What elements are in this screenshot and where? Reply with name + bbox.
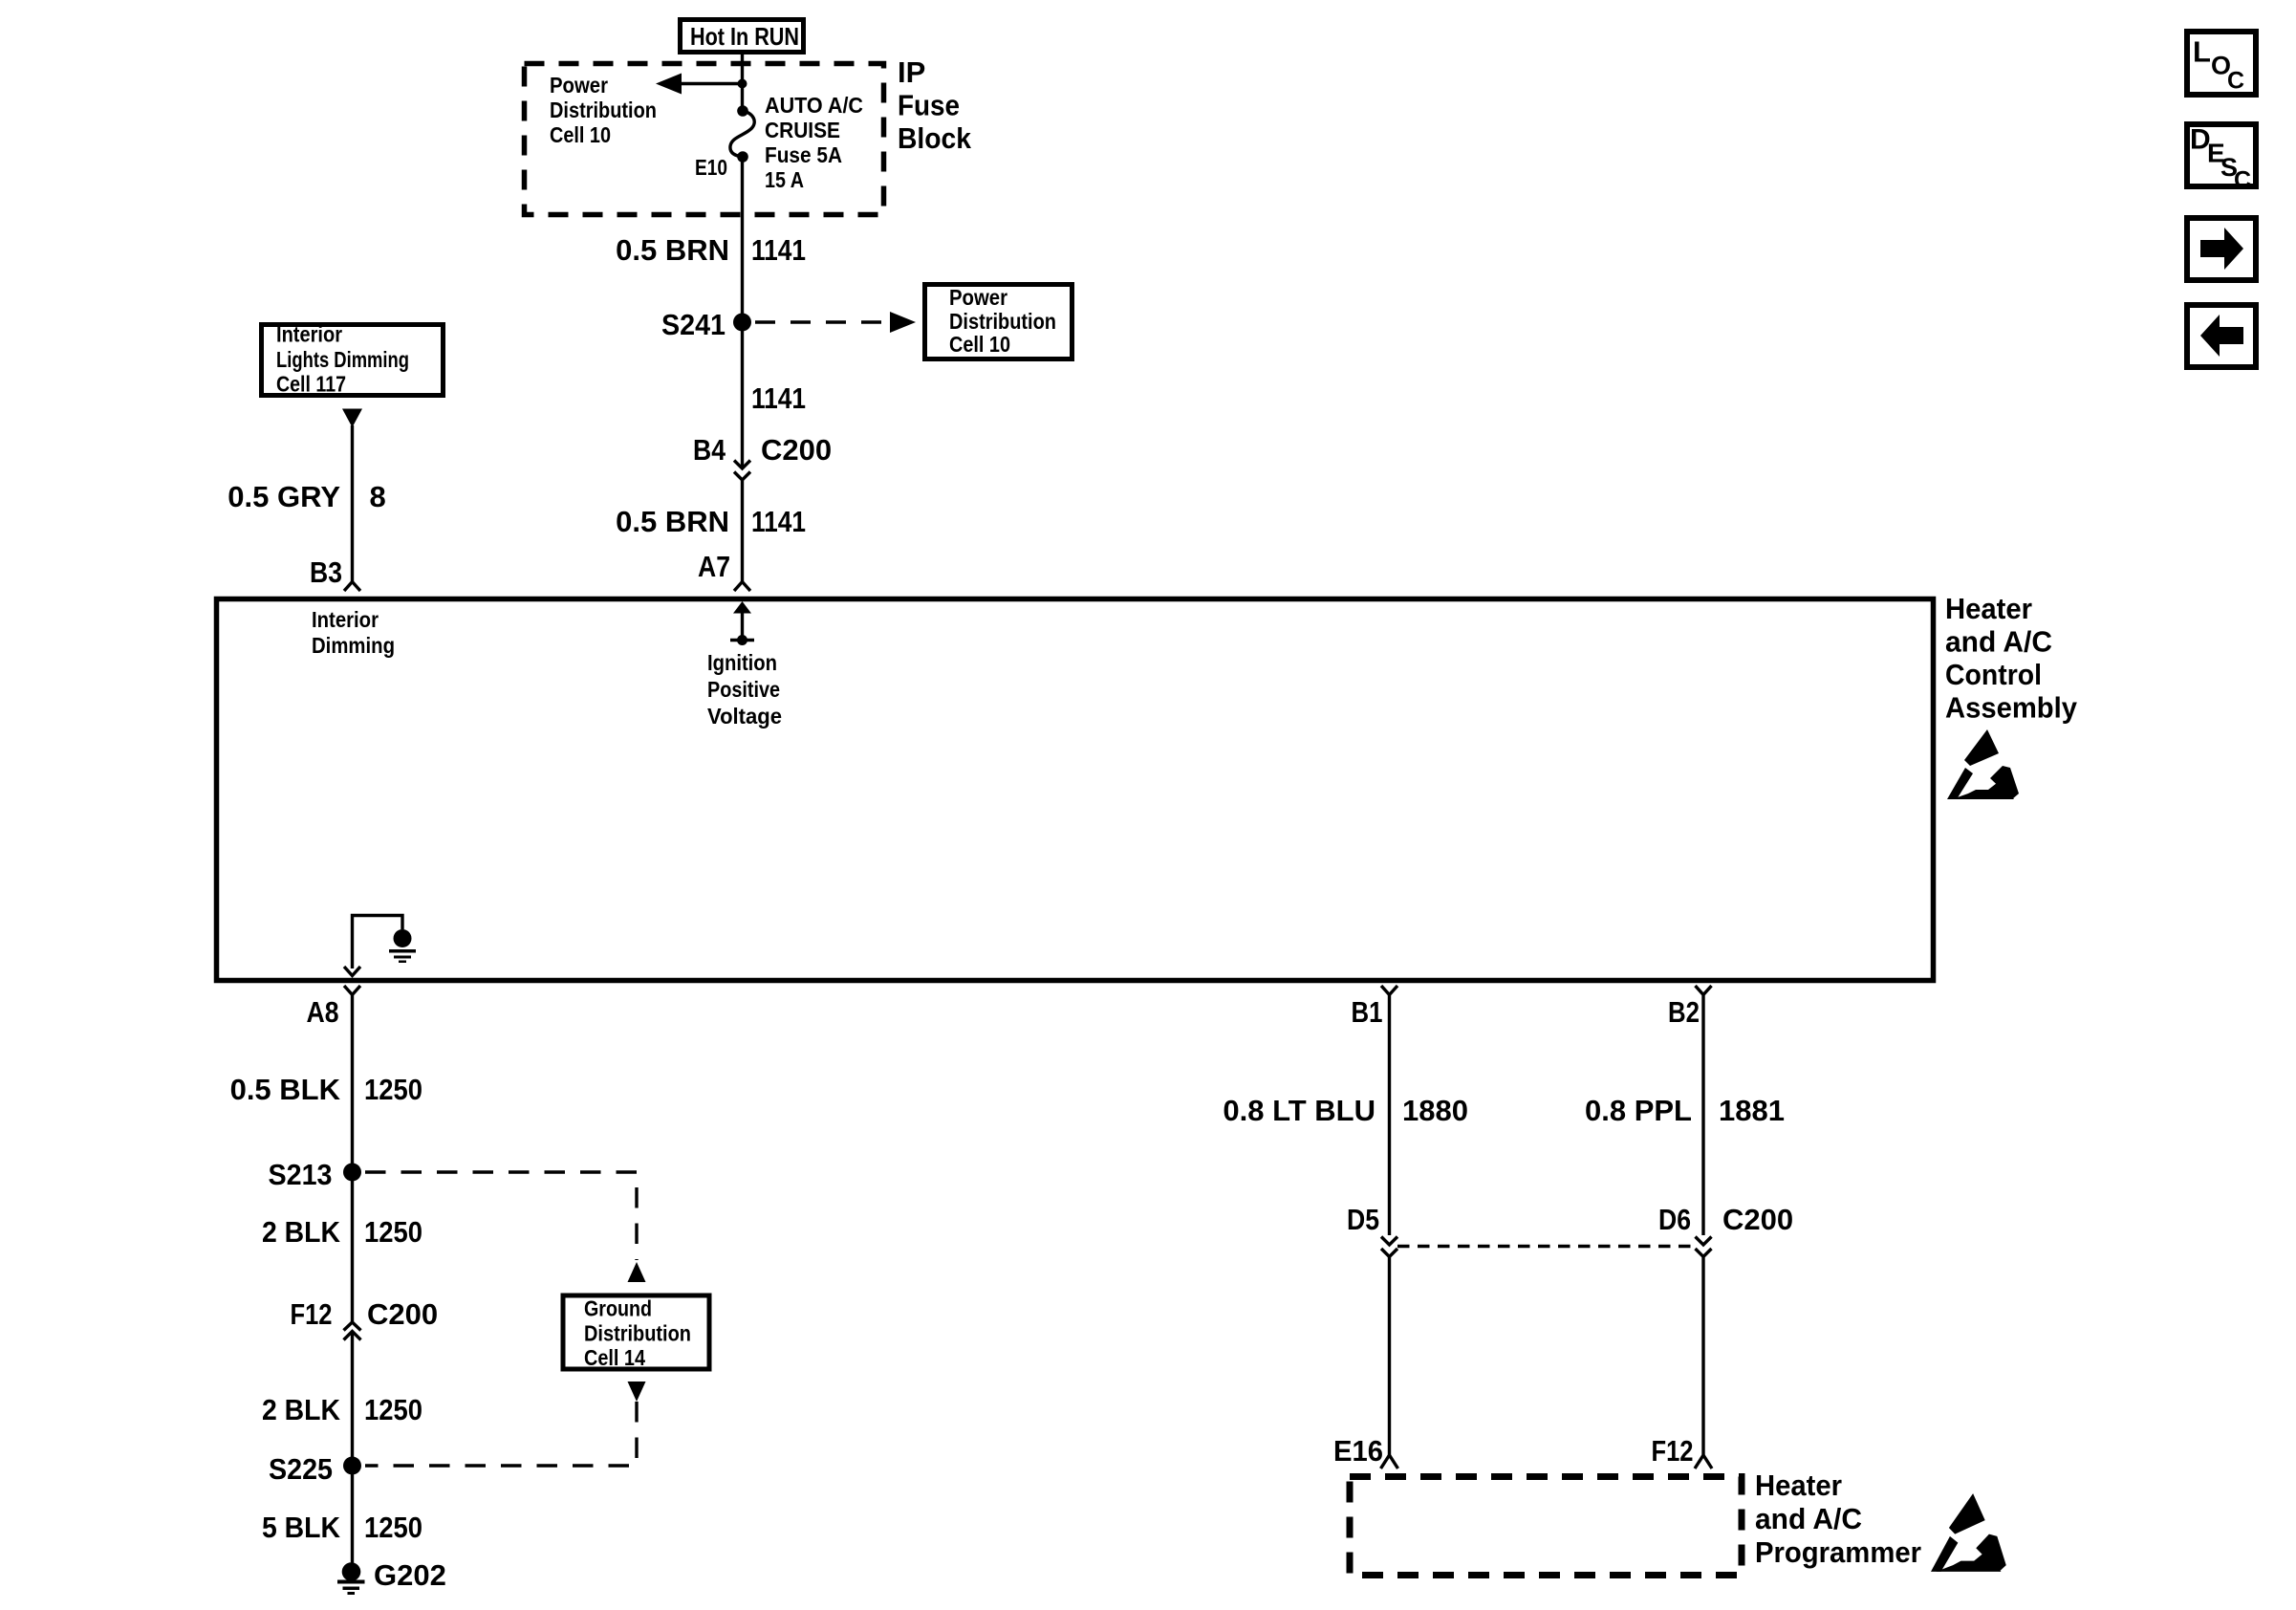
fuse E10 upper terminal dot	[737, 105, 748, 117]
svg-text:C200: C200	[367, 1297, 438, 1331]
svg-text:Hot In RUN: Hot In RUN	[690, 22, 799, 51]
svg-text:0.8 PPL: 0.8 PPL	[1585, 1094, 1692, 1127]
ignition positive voltage symbol stem	[741, 612, 744, 644]
ground G202 dot	[342, 1562, 361, 1581]
svg-text:CRUISE: CRUISE	[765, 118, 840, 142]
connector C200 pin B4 arrowhead	[734, 461, 750, 469]
svg-text:15 A: 15 A	[765, 167, 804, 192]
ESD symbol (programmer)	[1931, 1493, 2006, 1572]
svg-text:A7: A7	[698, 550, 730, 583]
dashed reference wire Ground Distribution to S225	[365, 1402, 637, 1466]
pin B1 chevron and wire 0.8 LT BLU 1880	[1381, 986, 1397, 1235]
pin E16 chevron	[1381, 1455, 1398, 1469]
svg-text:AUTO A/C: AUTO A/C	[765, 93, 863, 118]
svg-text:G202: G202	[374, 1558, 446, 1592]
svg-text:Fuse: Fuse	[898, 89, 960, 122]
svg-text:and A/C: and A/C	[1755, 1502, 1862, 1535]
svg-text:B4: B4	[693, 433, 726, 467]
svg-text:1250: 1250	[364, 1393, 422, 1426]
ground G202 hatch lines	[337, 1580, 365, 1584]
svg-text:L: L	[2193, 35, 2211, 69]
svg-text:1881: 1881	[1719, 1094, 1785, 1127]
svg-text:0.5 BLK: 0.5 BLK	[230, 1073, 341, 1106]
svg-text:B1: B1	[1352, 995, 1383, 1029]
svg-text:B2: B2	[1668, 995, 1700, 1029]
ESD sensitive symbol (control assembly)	[1947, 729, 2019, 799]
svg-text:Distribution: Distribution	[949, 309, 1056, 334]
svg-text:Interior: Interior	[276, 322, 342, 347]
arrow to pin A8 inside box	[344, 967, 360, 976]
pin A8 chevron	[344, 986, 360, 1172]
svg-text:D5: D5	[1347, 1203, 1379, 1236]
connector C200 pin D5 arrowhead	[1381, 1237, 1397, 1246]
svg-text:F12: F12	[1652, 1434, 1694, 1468]
fuse E10 element (AUTO A/C CRUISE Fuse 15 A)	[730, 111, 754, 157]
svg-text:0.5 GRY: 0.5 GRY	[227, 480, 340, 513]
svg-text:1141: 1141	[751, 233, 806, 267]
svg-text:E16: E16	[1333, 1434, 1383, 1468]
connector C200 pin D6 arrowhead	[1696, 1237, 1712, 1246]
svg-text:Assembly: Assembly	[1945, 691, 2078, 725]
svg-text:1250: 1250	[364, 1511, 422, 1544]
svg-text:Distribution: Distribution	[550, 98, 657, 122]
svg-text:Distribution: Distribution	[584, 1321, 691, 1346]
svg-text:D6: D6	[1658, 1203, 1691, 1236]
svg-text:Ignition: Ignition	[707, 650, 777, 675]
internal ground hatch lines	[389, 949, 416, 953]
svg-text:Power: Power	[949, 285, 1007, 310]
svg-text:1250: 1250	[364, 1073, 422, 1106]
svg-text:Control: Control	[1945, 658, 2042, 691]
arrow from Ground Distribution (down triangle)	[628, 1382, 646, 1402]
arrow into Power Distribution box	[890, 312, 916, 333]
svg-text:2 BLK: 2 BLK	[262, 1393, 341, 1426]
svg-text:B3: B3	[310, 555, 342, 589]
svg-text:Cell 14: Cell 14	[584, 1345, 645, 1370]
Ground Distribution Cell 14 reference box	[563, 1295, 709, 1370]
svg-text:IP: IP	[898, 55, 925, 89]
DESC reference box	[2187, 124, 2256, 194]
LOC reference box	[2187, 32, 2256, 95]
svg-text:C: C	[2227, 68, 2244, 95]
svg-text:Lights Dimming: Lights Dimming	[276, 347, 409, 372]
connector C200 chevron and wire 1881 to F12	[1696, 1249, 1712, 1455]
dashed reference wire from S241	[755, 320, 893, 323]
ignition positive voltage bar	[730, 639, 754, 642]
arrow to Power Distribution Cell 10	[656, 74, 682, 95]
svg-text:C200: C200	[1722, 1203, 1793, 1236]
svg-text:8: 8	[370, 480, 386, 513]
svg-text:Power: Power	[550, 73, 608, 98]
svg-text:1141: 1141	[751, 505, 806, 538]
svg-text:1250: 1250	[364, 1215, 422, 1249]
svg-text:Block: Block	[898, 121, 972, 155]
internal ground wire (A8)	[353, 916, 403, 969]
IP fuse block dashed box	[525, 64, 884, 215]
svg-text:1880: 1880	[1402, 1094, 1468, 1127]
wire 0.5 BRN 1141 to A7	[741, 480, 744, 581]
svg-text:Dimming: Dimming	[312, 633, 395, 658]
Power Distribution Cell 10 reference box	[925, 285, 1072, 359]
connector C200 arrowhead and wire 2 BLK 1250 to S225	[344, 1332, 361, 1467]
svg-text:Ground: Ground	[584, 1296, 652, 1321]
pin B3 chevron	[344, 582, 360, 592]
internal chassis ground symbol dot	[394, 929, 412, 947]
svg-text:Interior: Interior	[312, 607, 379, 632]
back arrow box	[2187, 305, 2256, 367]
svg-text:C: C	[2234, 167, 2251, 194]
svg-text:E10: E10	[695, 155, 727, 180]
junction node in fuse block	[738, 79, 747, 89]
svg-text:Voltage: Voltage	[707, 704, 782, 729]
svg-text:Cell 117: Cell 117	[276, 372, 346, 397]
connector C200 chevron and wire 1880 to E16	[1381, 1249, 1397, 1455]
connector C200 chevron (A7 side)	[734, 472, 750, 481]
svg-text:Cell 10: Cell 10	[550, 122, 611, 147]
svg-text:S213: S213	[269, 1158, 333, 1191]
Hot In RUN box	[681, 20, 804, 53]
splice S241	[733, 314, 751, 332]
arrow from cell 117	[342, 409, 362, 428]
svg-text:1141: 1141	[751, 381, 806, 415]
svg-text:0.5 BRN: 0.5 BRN	[616, 233, 729, 267]
arrow into Ground Distribution (up triangle)	[628, 1262, 646, 1282]
wire 2 BLK 1250 from S213 to connector C200	[351, 1172, 354, 1322]
wire 0.5 GRY 8	[351, 425, 354, 581]
svg-text:and A/C: and A/C	[1945, 625, 2052, 659]
pin A7 chevron	[734, 582, 750, 592]
wire branch to Power Distribution	[680, 82, 743, 85]
svg-text:Fuse 5A: Fuse 5A	[765, 142, 842, 167]
wire 1141 from S241 to connector C200	[741, 322, 744, 468]
svg-text:Programmer: Programmer	[1755, 1535, 1921, 1569]
pin F12 chevron	[1695, 1455, 1712, 1469]
svg-text:F12: F12	[291, 1297, 333, 1331]
wire from Hot In RUN into fuse block	[741, 54, 744, 108]
splice S225	[343, 1457, 361, 1475]
Interior Lights Dimming Cell 117 reference box	[262, 322, 444, 397]
svg-text:Cell 10: Cell 10	[949, 332, 1010, 357]
dashed connector plane C200	[1397, 1245, 1695, 1248]
svg-text:0.8 LT BLU: 0.8 LT BLU	[1223, 1094, 1375, 1127]
ignition positive voltage node dot	[737, 635, 747, 645]
svg-text:A8: A8	[307, 995, 339, 1029]
wire 1141 from fuse to S241	[741, 157, 744, 322]
svg-text:Positive: Positive	[707, 677, 780, 702]
ignition positive voltage arrowhead (pin A7)	[733, 601, 751, 614]
connector C200 chevron (pin F12, upper)	[344, 1322, 361, 1331]
svg-text:5 BLK: 5 BLK	[262, 1511, 341, 1544]
Heater and A/C Programmer box (dashed)	[1350, 1477, 1742, 1576]
Heater and A/C Control Assembly box	[217, 599, 1934, 981]
wire 5 BLK 1250	[351, 1466, 354, 1565]
svg-text:S241: S241	[661, 308, 726, 341]
svg-text:S225: S225	[269, 1452, 333, 1486]
svg-text:Heater: Heater	[1945, 592, 2032, 625]
dashed reference wire S213 to Ground Distribution	[365, 1172, 637, 1260]
pin B2 chevron and wire 0.8 PPL 1881	[1696, 986, 1712, 1235]
forward arrow box	[2187, 218, 2256, 280]
svg-text:2 BLK: 2 BLK	[262, 1215, 341, 1249]
svg-text:0.5 BRN: 0.5 BRN	[616, 505, 729, 538]
svg-text:Heater: Heater	[1755, 1469, 1842, 1502]
splice S213	[343, 1164, 361, 1182]
svg-text:C200: C200	[761, 433, 832, 467]
fuse E10 lower terminal dot	[737, 151, 748, 163]
